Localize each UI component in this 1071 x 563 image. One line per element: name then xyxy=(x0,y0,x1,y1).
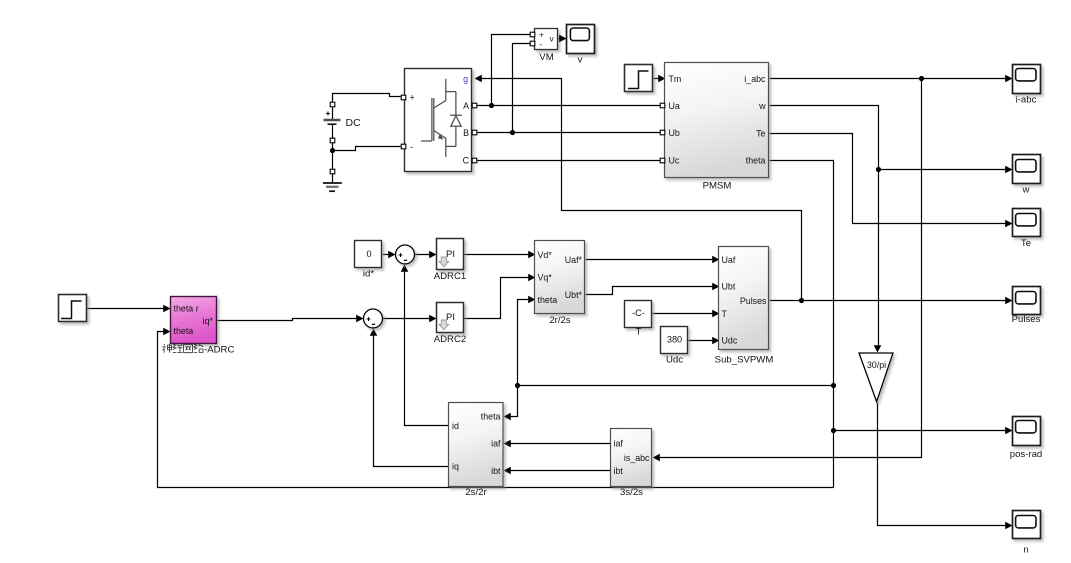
sum2 xyxy=(364,309,383,328)
port squares inverter xyxy=(401,95,406,100)
svg-text:w: w xyxy=(1022,185,1030,196)
svg-text:3s/2s: 3s/2s xyxy=(620,487,643,498)
svg-text:Pulses: Pulses xyxy=(740,296,767,306)
DC source battery xyxy=(324,102,362,143)
svg-text:theta: theta xyxy=(481,412,501,422)
svg-text:v: v xyxy=(578,55,583,66)
constant T xyxy=(625,301,652,328)
wire ADRC2 to 2r/2s Vq* xyxy=(464,278,532,319)
svg-text:ADRC2: ADRC2 xyxy=(434,334,467,345)
svg-text:PI: PI xyxy=(446,312,455,323)
svg-text:380: 380 xyxy=(667,334,682,344)
wire 2r/2s Uaf* to Sub_SVPWM Uaf xyxy=(586,259,716,261)
wire 2r/2s Ubt* to Sub_SVPWM Ubt xyxy=(586,287,716,295)
junction w branch xyxy=(876,167,881,172)
svg-text:DC: DC xyxy=(346,117,362,129)
svg-text:is_abc: is_abc xyxy=(624,453,650,463)
label 神经网络-ADRC xyxy=(162,344,203,353)
ADRC1 PI block xyxy=(437,239,464,270)
scope w xyxy=(1013,155,1041,184)
wire PMSM w to gain 30/pi xyxy=(770,106,879,349)
svg-text:2s/2r: 2s/2r xyxy=(465,487,487,498)
wire theta feedback to ADRC theta xyxy=(158,332,834,488)
subsystem ADRC neural network xyxy=(171,297,217,344)
wire minus jog to inverter minus xyxy=(333,147,401,151)
junction theta pos-rad branch xyxy=(831,428,836,433)
svg-text:iq: iq xyxy=(452,462,459,472)
wire const Udc to Sub_SVPWM Udc xyxy=(689,340,716,342)
svg-text:ibt: ibt xyxy=(614,466,624,476)
wire theta down to 2s/2r theta xyxy=(508,386,518,417)
svg-text:Te: Te xyxy=(1021,238,1031,249)
svg-text:PI: PI xyxy=(446,249,455,260)
wire const T to Sub_SVPWM T xyxy=(653,313,716,315)
subsystem 2r/2s xyxy=(535,241,585,314)
svg-text:w: w xyxy=(758,101,766,111)
subsystem Sub_SVPWM xyxy=(719,247,769,350)
IGBT and diode icon xyxy=(421,79,462,157)
svg-text:A: A xyxy=(463,101,469,111)
svg-text:theta: theta xyxy=(538,295,558,305)
arrowheads xyxy=(163,305,170,313)
svg-text:id: id xyxy=(452,421,459,431)
svg-text:iaf: iaf xyxy=(491,439,501,449)
plus mark xyxy=(326,112,330,116)
svg-text:-C-: -C- xyxy=(632,308,645,318)
port squares PMSM xyxy=(660,103,665,108)
svg-text:T: T xyxy=(722,309,728,319)
wire branch theta to pos-rad scope xyxy=(834,430,1009,432)
svg-text:iaf: iaf xyxy=(614,439,624,449)
gain 30/pi xyxy=(859,353,893,402)
step block Step1 xyxy=(59,295,87,322)
junction DC minus xyxy=(330,148,335,153)
svg-text:ibt: ibt xyxy=(491,466,501,476)
wire DC plus to inverter plus xyxy=(333,94,401,102)
svg-text:-: - xyxy=(410,142,413,152)
wire sum2 to ADRC2 xyxy=(383,318,433,320)
constant id* xyxy=(355,241,382,268)
wire VM v to scope v xyxy=(559,38,563,40)
wire Pulses feedback to inverter g xyxy=(479,79,802,301)
svg-text:+: + xyxy=(539,30,544,40)
svg-text:Uaf*: Uaf* xyxy=(565,255,583,265)
svg-text:VM: VM xyxy=(539,52,553,63)
svg-text:Vd*: Vd* xyxy=(538,250,553,260)
wire inverter B to PMSM Ub xyxy=(478,132,661,134)
junction i_abc branch xyxy=(919,76,924,81)
svg-text:Ub: Ub xyxy=(669,128,680,138)
wire DC minus lead xyxy=(332,108,334,120)
svg-text:ADRC1: ADRC1 xyxy=(434,271,467,282)
svg-text:C: C xyxy=(463,156,470,166)
wire theta up to 2r/2s theta xyxy=(518,300,532,386)
svg-text:B: B xyxy=(463,128,469,138)
subsystem 3s/2s (mirrored) xyxy=(611,429,652,487)
battery short plate xyxy=(328,123,337,125)
subsystem 2s/2r (mirrored) xyxy=(449,403,504,487)
scope Pulses xyxy=(1013,287,1041,315)
svg-text:Tm: Tm xyxy=(669,74,682,84)
voltage measurement VM xyxy=(535,29,558,50)
wire battery bottom to ground xyxy=(332,125,334,169)
junction theta left branch xyxy=(831,383,836,388)
svg-text:2r/2s: 2r/2s xyxy=(549,315,571,326)
svg-text:i-abc: i-abc xyxy=(1016,94,1037,105)
svg-text:Ubt*: Ubt* xyxy=(565,290,583,300)
svg-text:Vq*: Vq* xyxy=(538,273,553,283)
wire step2 to PMSM Tm xyxy=(654,78,662,80)
svg-text:-: - xyxy=(540,39,543,49)
svg-text:iq*: iq* xyxy=(203,316,214,326)
svg-text:Ubt: Ubt xyxy=(722,282,736,292)
svg-text:30/pi: 30/pi xyxy=(867,360,886,370)
scope n xyxy=(1013,511,1041,539)
svg-text:Udc: Udc xyxy=(666,354,683,365)
wire sum1 to ADRC1 xyxy=(415,254,433,256)
svg-text:pos-rad: pos-rad xyxy=(1010,449,1043,460)
svg-text:Uaf: Uaf xyxy=(722,255,736,265)
ground symbol xyxy=(323,169,342,191)
battery long plate xyxy=(324,119,341,122)
ADRC2 PI block xyxy=(437,303,464,333)
wire 2s/2r id to sum1 xyxy=(405,269,450,426)
svg-text:i_abc: i_abc xyxy=(744,74,766,84)
wire branch i_abc down to 3s/2s is_abc xyxy=(657,79,922,458)
svg-text:theta r: theta r xyxy=(174,303,199,313)
wire 2s/2r iq to sum2 xyxy=(374,333,450,467)
scope i-abc xyxy=(1013,65,1041,94)
constant Udc 380 xyxy=(661,327,688,354)
wire gain 30/pi out to scope n xyxy=(878,403,1009,526)
sum1 xyxy=(396,245,415,264)
wire branch B to VM minus xyxy=(513,44,531,133)
wire inverter C to PMSM Uc xyxy=(478,160,661,162)
scope Te xyxy=(1013,209,1041,237)
svg-text:theta: theta xyxy=(746,156,766,166)
port square DC plus xyxy=(330,102,335,107)
step block Step2 xyxy=(625,65,653,92)
svg-text:PMSM: PMSM xyxy=(703,181,732,192)
svg-text:g: g xyxy=(463,74,468,84)
wire branch theta left xyxy=(518,385,834,387)
wire ADRC iq* to sum2 xyxy=(217,319,361,321)
wire id* const to sum1 xyxy=(383,254,393,256)
wire 3s/2s ibt to 2s/2r ibt xyxy=(508,470,612,472)
svg-text:Uc: Uc xyxy=(669,156,680,166)
wire Sub_SVPWM Pulses to scope Pulses xyxy=(770,300,1009,302)
svg-text:Ua: Ua xyxy=(669,101,680,111)
scope pos-rad xyxy=(1013,417,1041,446)
svg-text:0: 0 xyxy=(366,249,371,259)
label DC xyxy=(346,117,362,129)
wire PMSM theta down xyxy=(770,161,834,488)
svg-text:T: T xyxy=(636,327,642,338)
svg-text:-ADRC: -ADRC xyxy=(204,345,234,356)
svg-text:theta: theta xyxy=(174,326,194,336)
subsystem PMSM xyxy=(665,63,769,178)
junction theta split xyxy=(515,383,520,388)
wire ground lead xyxy=(332,174,334,184)
svg-text:Sub_SVPWM: Sub_SVPWM xyxy=(715,354,774,365)
inverter universal bridge xyxy=(405,69,472,172)
wire ADRC1 to 2r/2s Vd* xyxy=(464,254,532,256)
wire branch w to scope w xyxy=(879,169,1009,171)
scope v xyxy=(567,25,595,54)
wire step1 to ADRC theta r xyxy=(87,308,167,310)
wire PMSM Te to scope Te xyxy=(770,134,1009,224)
svg-text:Te: Te xyxy=(756,129,765,139)
svg-text:+: + xyxy=(410,93,415,103)
junction B-VM xyxy=(510,130,515,135)
svg-text:Udc: Udc xyxy=(722,336,738,346)
junction Pulses-g xyxy=(799,298,804,303)
wire branch A to VM plus xyxy=(492,35,531,106)
junction A-VM xyxy=(489,103,494,108)
wire inverter A to PMSM Ua xyxy=(478,105,661,107)
svg-text:n: n xyxy=(1023,545,1028,556)
wire PMSM i_abc to scope i-abc xyxy=(770,78,1009,80)
svg-text:id*: id* xyxy=(363,268,374,279)
svg-text:Pulses: Pulses xyxy=(1012,314,1041,325)
port square DC minus xyxy=(330,138,335,143)
wire 3s/2s iaf to 2s/2r iaf xyxy=(508,443,612,445)
